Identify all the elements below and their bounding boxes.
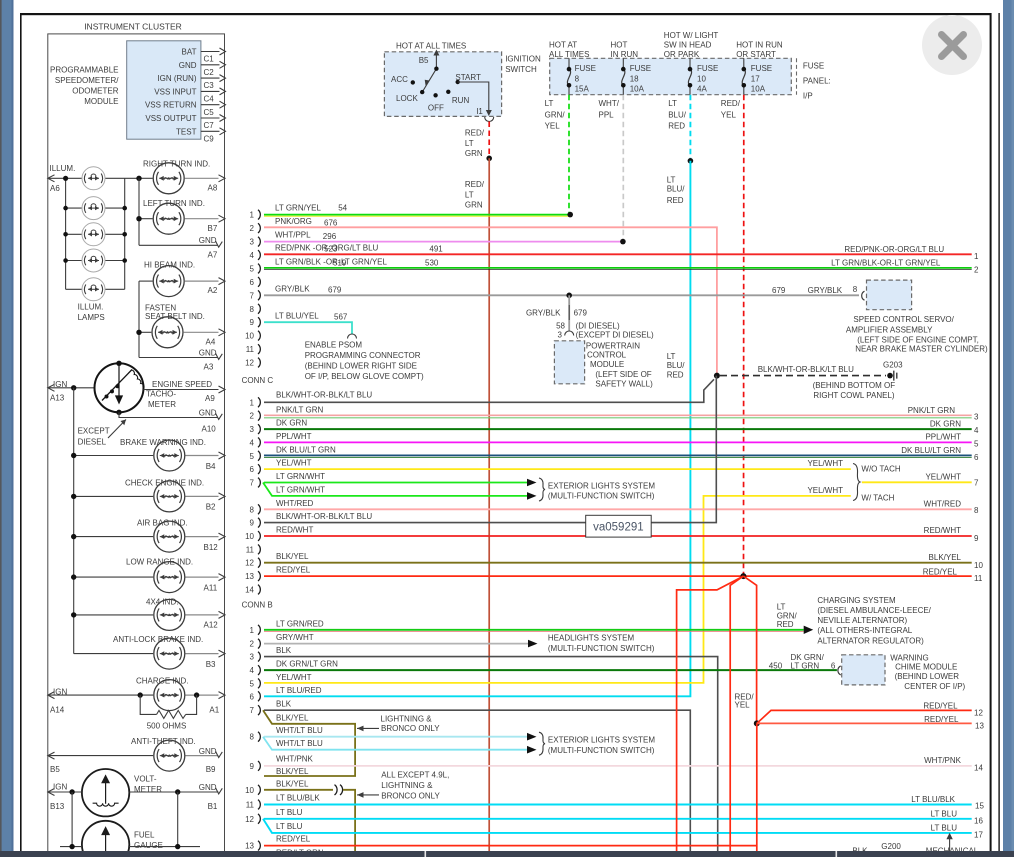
svg-text:5: 5 (250, 265, 255, 274)
PSOM pin C7 (201, 115, 226, 131)
node RED/YEL lower junction (754, 720, 760, 726)
close button (922, 15, 982, 75)
PSOM pin C5 (201, 101, 226, 117)
svg-text:17: 17 (751, 74, 760, 83)
svg-text:11: 11 (246, 345, 255, 354)
svg-text:W/ TACH: W/ TACH (861, 493, 894, 502)
svg-text:VSS INPUT: VSS INPUT (154, 87, 196, 96)
svg-text:A2: A2 (208, 286, 218, 295)
svg-text:GRY/WHT: GRY/WHT (276, 633, 314, 642)
svg-text:DK BLU/LT GRN: DK BLU/LT GRN (276, 445, 336, 454)
wire YEL/WHT right seg (862, 472, 979, 487)
PSOM pin C9 (201, 128, 226, 144)
wire YEL/WHT left w/o tach (264, 459, 851, 470)
svg-text:POWERTRAIN: POWERTRAIN (586, 341, 640, 350)
svg-text:PPL: PPL (599, 110, 615, 119)
svg-text:ENGINE SPEED: ENGINE SPEED (152, 380, 212, 389)
svg-text:GRN: GRN (465, 149, 483, 158)
conn C pin 13 (245, 571, 260, 581)
svg-text:LT GRN/WHT: LT GRN/WHT (276, 472, 325, 481)
svg-text:12: 12 (245, 559, 254, 568)
svg-text:(ALL OTHERS-INTEGRAL: (ALL OTHERS-INTEGRAL (817, 626, 912, 635)
svg-text:8: 8 (575, 74, 580, 83)
ILLUM. LAMPS label (78, 303, 105, 323)
conn C pin 5 (250, 451, 261, 461)
svg-text:WHT/RED: WHT/RED (276, 499, 314, 508)
low range indicator lamp (71, 557, 225, 592)
wire LT GRN/WHT b (263, 483, 537, 500)
svg-text:DIESEL: DIESEL (78, 437, 107, 446)
svg-text:BLU/: BLU/ (667, 361, 686, 370)
svg-text:6: 6 (250, 278, 255, 287)
svg-text:GAUGE: GAUGE (134, 841, 163, 850)
node BLK/WHT junction (714, 373, 720, 379)
svg-text:B13: B13 (50, 802, 65, 811)
svg-text:LT BLU: LT BLU (931, 810, 958, 819)
conn pin 1 (upper) (250, 210, 261, 220)
svg-text:HOT: HOT (611, 41, 628, 50)
wire RED/YEL row13 (264, 566, 983, 584)
wire PNK/ORG 676 (264, 217, 717, 375)
svg-text:RED/: RED/ (465, 129, 485, 138)
IGN A13 feed (48, 380, 95, 403)
brake warning indicator lamp (71, 438, 225, 471)
svg-text:BLK/YEL: BLK/YEL (276, 552, 309, 561)
svg-text:9: 9 (974, 534, 979, 543)
svg-text:SPEEDOMETER/: SPEEDOMETER/ (55, 76, 119, 85)
svg-text:G200: G200 (881, 842, 901, 851)
conn C pin 4 (250, 438, 261, 448)
wire BLK/WHT dashed to G203 (720, 365, 886, 376)
svg-text:DK GRN: DK GRN (276, 419, 307, 428)
svg-text:BLK/YEL: BLK/YEL (276, 779, 309, 788)
svg-text:10A: 10A (630, 85, 645, 94)
svg-text:9: 9 (250, 762, 255, 771)
resistor R1 500 OHMS (140, 695, 196, 730)
conn B pin 1 (250, 625, 261, 635)
voltmeter (48, 769, 223, 816)
svg-text:SAFETY WALL): SAFETY WALL) (595, 379, 653, 388)
wire WHT/LT BLU b (263, 737, 537, 754)
indicator bus wire (73, 388, 75, 654)
svg-text:A6: A6 (50, 184, 60, 193)
svg-text:LT GRN/BLK -OR-: LT GRN/BLK -OR- (275, 258, 341, 267)
svg-text:EXTERIOR LIGHTS SYSTEM: EXTERIOR LIGHTS SYSTEM (548, 735, 655, 744)
svg-text:A9: A9 (205, 394, 215, 403)
node LT BLU/RED (688, 158, 694, 164)
svg-text:FUSE: FUSE (630, 64, 651, 73)
svg-text:GND: GND (199, 408, 217, 417)
svg-text:15: 15 (975, 801, 984, 810)
svg-text:LT: LT (545, 99, 554, 108)
svg-text:RED: RED (667, 196, 684, 205)
svg-text:BRAKE WARNING IND.: BRAKE WARNING IND. (120, 438, 206, 447)
svg-text:3: 3 (974, 413, 979, 422)
illum right bus wire (124, 178, 126, 289)
svg-text:7: 7 (974, 479, 979, 488)
svg-text:WHT/PNK: WHT/PNK (924, 756, 962, 765)
svg-text:SPEED CONTROL SERVO/: SPEED CONTROL SERVO/ (853, 315, 954, 324)
wire RED/YEL fan far-left (677, 576, 744, 851)
wire LT BLU a (264, 808, 983, 825)
wire RED/YEL row13 right (757, 715, 985, 731)
svg-text:3: 3 (250, 238, 255, 247)
wire WHT/LT BLU a (264, 726, 537, 740)
svg-text:RIGHT TURN IND.: RIGHT TURN IND. (143, 160, 210, 169)
svg-text:13: 13 (245, 842, 254, 851)
svg-text:WHT/PNK: WHT/PNK (276, 754, 314, 763)
svg-text:2: 2 (974, 266, 979, 275)
svg-text:11: 11 (246, 545, 255, 554)
left turn indicator lamp (136, 199, 225, 234)
label RED/LT GRN upper (465, 129, 485, 159)
wire RED/YEL dashed from fuse 17 (721, 95, 744, 576)
svg-text:14: 14 (245, 586, 254, 595)
svg-text:ALL TIMES: ALL TIMES (549, 50, 589, 59)
bottom dark band (0, 851, 1014, 857)
node bus hi-beam to seatbelt (138, 281, 140, 357)
svg-text:PPL/WHT: PPL/WHT (276, 432, 312, 441)
GND A7 wire (139, 236, 222, 259)
svg-text:17: 17 (974, 830, 983, 839)
svg-text:TACHO-: TACHO- (146, 390, 176, 399)
anti-lock brake indicator lamp (74, 635, 225, 669)
charge indicator lamp (48, 676, 225, 714)
svg-text:10: 10 (245, 532, 254, 541)
conn pin 2 (upper) (250, 223, 261, 233)
fasten seat belt indicator lamp (136, 304, 225, 348)
air bag indicator lamp (71, 519, 225, 553)
svg-text:RED/YEL: RED/YEL (276, 835, 311, 844)
conn C pin 12 (245, 558, 260, 568)
label LT BLU/RED mid (667, 175, 686, 205)
svg-text:INSTRUMENT CLUSTER: INSTRUMENT CLUSTER (84, 22, 182, 32)
svg-text:1: 1 (250, 211, 255, 220)
svg-text:FUSE: FUSE (803, 62, 824, 71)
svg-text:HOT IN RUN: HOT IN RUN (736, 41, 783, 50)
label LT BLU/RED lower (667, 352, 686, 380)
ILLUM A6 feed (48, 164, 139, 193)
svg-text:FUSE: FUSE (697, 64, 718, 73)
svg-text:8: 8 (853, 285, 858, 294)
svg-text:LT BLU: LT BLU (276, 808, 303, 817)
svg-text:IN RUN: IN RUN (611, 50, 639, 59)
fuse F18 10A (621, 58, 651, 94)
svg-text:FUSE: FUSE (575, 64, 596, 73)
svg-text:(LEFT SIDE OF ENGINE COMPT,: (LEFT SIDE OF ENGINE COMPT, (857, 336, 979, 345)
fuse F10 4A (688, 58, 719, 94)
PSOM pin C1 (201, 48, 226, 64)
conn pin 10 (upper) (245, 331, 260, 341)
svg-text:VOLT-: VOLT- (134, 775, 157, 784)
node dashed to solid (486, 156, 492, 162)
svg-text:LT: LT (667, 175, 676, 184)
svg-text:5: 5 (250, 452, 255, 461)
svg-text:6: 6 (974, 453, 979, 462)
svg-text:IGNITION: IGNITION (505, 55, 541, 64)
tachometer (95, 361, 145, 415)
conn B pin 7 (250, 705, 261, 715)
svg-text:CHIME MODULE: CHIME MODULE (895, 663, 957, 672)
svg-text:(BEHIND LOWER: (BEHIND LOWER (895, 672, 960, 681)
svg-text:C1: C1 (204, 55, 215, 64)
wire RED/PNK-OR-ORG/LT BLU 491 (264, 243, 972, 254)
svg-text:5: 5 (974, 439, 979, 448)
instrument cluster box (48, 22, 225, 857)
svg-text:PNK/ORG: PNK/ORG (275, 217, 312, 226)
svg-text:LT: LT (777, 603, 786, 612)
svg-text:LT BLU: LT BLU (276, 822, 303, 831)
wire LT BLU b (263, 819, 983, 840)
conn pin 6 (upper) (250, 277, 261, 287)
svg-text:CHARGING SYSTEM: CHARGING SYSTEM (817, 596, 896, 605)
svg-text:679: 679 (328, 285, 342, 294)
svg-text:GRY/BLK: GRY/BLK (808, 286, 843, 295)
svg-text:B2: B2 (206, 503, 216, 512)
wire GRY/BLK 679 (264, 284, 859, 298)
svg-text:EXCEPT: EXCEPT (78, 426, 110, 435)
wire voltmeter to fuel gauge right (177, 792, 179, 847)
label RED/PNK right (844, 245, 979, 261)
svg-text:4A: 4A (697, 85, 707, 94)
svg-text:10: 10 (697, 74, 706, 83)
svg-text:YEL: YEL (721, 110, 737, 119)
svg-text:B4: B4 (206, 462, 216, 471)
conn B pin 2 (250, 639, 261, 649)
svg-text:ORG/LT BLU: ORG/LT BLU (332, 243, 379, 252)
svg-text:WHT/LT BLU: WHT/LT BLU (276, 726, 323, 735)
svg-text:ILLUM.: ILLUM. (50, 164, 76, 173)
wire LT BLU/RED solid vertical (264, 161, 690, 697)
svg-text:I1: I1 (476, 107, 483, 116)
svg-text:BLK/YEL: BLK/YEL (276, 767, 309, 776)
svg-text:GND: GND (199, 747, 217, 756)
GND A3 wire (139, 348, 222, 371)
conn C pin 1 (250, 397, 261, 407)
svg-text:CONN C: CONN C (242, 376, 274, 385)
illum bus junction dots (63, 176, 127, 263)
conn B pin 5 (250, 679, 261, 689)
svg-text:LT: LT (465, 139, 474, 148)
svg-text:A1: A1 (209, 705, 219, 714)
svg-text:OF I/P, BELOW GLOVE COMPT): OF I/P, BELOW GLOVE COMPT) (305, 372, 424, 381)
svg-text:13: 13 (975, 722, 984, 731)
header HOT IN RUN (611, 41, 639, 60)
svg-text:(BEHIND BOTTOM OF: (BEHIND BOTTOM OF (813, 381, 896, 390)
svg-text:YEL/WHT: YEL/WHT (807, 486, 843, 495)
conn C pin 6 (250, 464, 261, 474)
svg-text:B3: B3 (206, 660, 216, 669)
svg-text:BLK/WHT-OR-BLK/LT BLU: BLK/WHT-OR-BLK/LT BLU (758, 365, 854, 374)
wire BLK/WHT row9 (264, 376, 716, 523)
svg-text:YEL/WHT: YEL/WHT (807, 459, 843, 468)
svg-text:RED/PNK -OR-: RED/PNK -OR- (275, 243, 330, 252)
conn C pin 9 (250, 518, 261, 528)
illum lamp L3 (66, 223, 125, 246)
4x4 indicator lamp (71, 597, 225, 630)
svg-text:6: 6 (250, 692, 255, 701)
svg-text:1: 1 (974, 252, 979, 261)
svg-text:11: 11 (974, 574, 983, 583)
anti-theft indicator lamp (48, 737, 223, 774)
conn B pin 4 (250, 665, 261, 675)
svg-text:16: 16 (974, 816, 983, 825)
svg-text:WHT/LT BLU: WHT/LT BLU (276, 739, 323, 748)
svg-text:3: 3 (250, 653, 255, 662)
wire GRY/WHT (264, 633, 655, 653)
svg-text:TEST: TEST (176, 127, 197, 136)
svg-text:3: 3 (558, 330, 563, 339)
svg-text:9: 9 (250, 318, 255, 327)
conn pin 4 (upper) (250, 250, 261, 260)
svg-text:A3: A3 (204, 363, 214, 372)
svg-text:LIGHTNING &: LIGHTNING & (381, 781, 433, 790)
wire RED/YEL fan left-down (730, 576, 743, 851)
svg-text:LT: LT (465, 190, 474, 199)
conn B pin 10 (245, 785, 260, 795)
svg-text:12: 12 (245, 359, 254, 368)
svg-text:RUN: RUN (452, 96, 470, 105)
svg-text:C7: C7 (204, 121, 215, 130)
PSOM module U1 (50, 41, 201, 139)
svg-text:A11: A11 (204, 583, 218, 592)
wire voltmeter to fuel gauge left (71, 792, 73, 847)
svg-text:BLK/YEL: BLK/YEL (929, 553, 962, 562)
wire WHT/RED (264, 499, 979, 515)
svg-text:ALTERNATOR REGULATOR): ALTERNATOR REGULATOR) (817, 636, 924, 645)
wire RED/LT GRN dashed from ignition (488, 122, 490, 159)
svg-text:LT BLU/BLK: LT BLU/BLK (276, 793, 320, 802)
svg-text:METER: METER (134, 785, 162, 794)
svg-text:va059291: va059291 (593, 522, 644, 534)
svg-text:10: 10 (245, 786, 254, 795)
svg-text:MODULE: MODULE (84, 97, 118, 106)
arrow lightning note 2 (357, 770, 449, 800)
ENABLE PSOM note (305, 340, 424, 381)
svg-text:DK GRN: DK GRN (930, 419, 961, 428)
hi beam indicator lamp (139, 261, 225, 297)
svg-text:RED/: RED/ (721, 99, 741, 108)
illum lamp L2 (66, 197, 125, 220)
svg-text:YEL: YEL (545, 121, 561, 130)
svg-text:LIGHTNING &: LIGHTNING & (381, 715, 433, 724)
watermark va059291 (586, 515, 652, 537)
svg-text:LT GRN/YEL: LT GRN/YEL (341, 258, 387, 267)
wire LT GRN/YEL 54 (264, 204, 573, 218)
node bus to left turn (138, 178, 140, 245)
svg-text:G203: G203 (883, 360, 903, 369)
ground G203 (813, 360, 904, 400)
svg-text:ENABLE PSOM: ENABLE PSOM (305, 340, 363, 349)
svg-text:C4: C4 (204, 95, 215, 104)
svg-text:PNK/LT GRN: PNK/LT GRN (276, 405, 323, 414)
conn C pin 7 (250, 478, 261, 488)
conn B pin 6 (250, 691, 261, 701)
svg-text:567: 567 (334, 312, 348, 321)
wire RED/YEL below junction (756, 723, 758, 851)
svg-text:RED/WHT: RED/WHT (276, 526, 313, 535)
svg-text:530: 530 (425, 259, 439, 268)
wire BLK/WHT-OR-BLK/LT BLU row1 (264, 379, 714, 402)
conn pin 9 (upper) (250, 317, 261, 327)
svg-text:GND: GND (199, 348, 217, 357)
svg-text:NEAR BRAKE MASTER CYLINDER): NEAR BRAKE MASTER CYLINDER) (855, 345, 988, 354)
conn C pin 8 (250, 504, 261, 514)
svg-text:PROGRAMMING CONNECTOR: PROGRAMMING CONNECTOR (305, 351, 421, 360)
svg-text:RED/YEL: RED/YEL (923, 702, 958, 711)
brace exterior lights upper (539, 478, 655, 501)
svg-text:58: 58 (556, 322, 565, 331)
wire RED/YEL row12 right (757, 702, 984, 724)
brace exterior lights lower (539, 732, 655, 755)
wire RED/WHT (264, 526, 979, 543)
svg-text:PANEL:: PANEL: (803, 77, 831, 86)
svg-text:HOT AT: HOT AT (549, 41, 577, 50)
svg-text:ALL EXCEPT 4.9L,: ALL EXCEPT 4.9L, (381, 770, 449, 779)
illum lamp L4 (66, 249, 125, 272)
svg-text:(BEHIND LOWER RIGHT SIDE: (BEHIND LOWER RIGHT SIDE (305, 361, 417, 370)
svg-text:A14: A14 (50, 705, 65, 714)
conn B pin 13 (245, 841, 260, 851)
svg-text:A7: A7 (208, 251, 218, 260)
label RED/LT GRN lower (465, 180, 485, 210)
speed control servo box (846, 280, 988, 353)
svg-text:RED/: RED/ (465, 180, 485, 189)
svg-text:VSS RETURN: VSS RETURN (145, 101, 197, 110)
svg-text:YEL/WHT: YEL/WHT (925, 472, 961, 481)
svg-text:RED/WHT: RED/WHT (924, 526, 961, 535)
wire LT BLU/BLK (264, 793, 984, 810)
label LT GRN/RED right (777, 603, 798, 629)
svg-text:18: 18 (630, 74, 639, 83)
svg-text:GRN: GRN (465, 201, 483, 210)
svg-text:LEFT TURN IND.: LEFT TURN IND. (143, 199, 205, 208)
svg-text:OFF: OFF (428, 104, 444, 113)
svg-text:BLK/WHT-OR-BLK/LT BLU: BLK/WHT-OR-BLK/LT BLU (276, 512, 372, 521)
svg-text:NEVILLE ALTERNATOR): NEVILLE ALTERNATOR) (817, 616, 907, 625)
svg-text:14: 14 (974, 763, 983, 772)
wire LT BLU/RED dashed from fuse 10 (668, 95, 690, 161)
wire DK GRN (264, 419, 979, 436)
svg-text:491: 491 (429, 244, 443, 253)
svg-text:10: 10 (974, 561, 983, 570)
svg-text:WARNING: WARNING (890, 654, 928, 663)
svg-text:8: 8 (250, 305, 255, 314)
ignition switch S1 (384, 42, 541, 117)
svg-text:RED: RED (667, 371, 684, 380)
svg-text:LT BLU: LT BLU (931, 823, 958, 832)
svg-text:LT BLU/RED: LT BLU/RED (276, 686, 322, 695)
svg-text:C5: C5 (204, 108, 215, 117)
svg-text:CONN B: CONN B (242, 601, 273, 610)
GND A10 wire (119, 408, 222, 433)
svg-text:BLU/: BLU/ (668, 110, 687, 119)
svg-text:YEL/WHT: YEL/WHT (276, 459, 312, 468)
wire LT GRN/RED (264, 619, 813, 634)
wire PPL/WHT (264, 432, 979, 449)
svg-text:DK BLU/LT GRN: DK BLU/LT GRN (901, 446, 961, 455)
svg-text:A4: A4 (206, 338, 216, 347)
ground G200 area (852, 833, 978, 856)
svg-text:LT GRN/WHT: LT GRN/WHT (276, 485, 325, 494)
svg-text:(MULTI-FUNCTION SWITCH): (MULTI-FUNCTION SWITCH) (548, 492, 655, 501)
EXCEPT DIESEL note (78, 420, 126, 447)
svg-text:BRONCO ONLY: BRONCO ONLY (381, 724, 440, 733)
svg-text:SWITCH: SWITCH (505, 65, 537, 74)
svg-text:LT BLU/YEL: LT BLU/YEL (275, 311, 319, 320)
svg-text:4: 4 (250, 666, 255, 675)
svg-text:GRN/: GRN/ (545, 110, 566, 119)
